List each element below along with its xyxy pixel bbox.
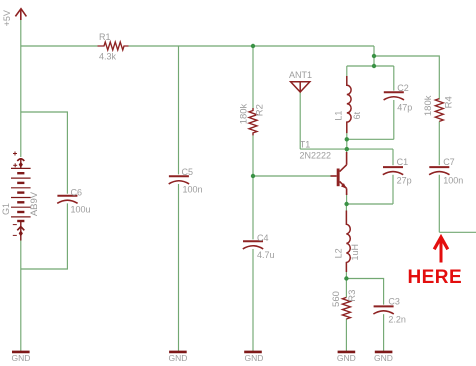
HERE annotation arrow — [434, 237, 448, 262]
ground symbol GND (battery) — [12, 351, 30, 354]
svg-text:R2: R2 — [255, 104, 266, 116]
wire C1 top lead — [392, 149, 394, 165]
wire C5 top lead — [178, 46, 180, 174]
wire tank top rail — [347, 65, 394, 67]
ground symbol GND (R3) — [338, 351, 356, 354]
capacitor C1 — [383, 167, 403, 175]
wire battery to C6 top — [21, 112, 68, 194]
svg-text:C6: C6 — [71, 188, 83, 198]
svg-text:6t: 6t — [352, 111, 362, 119]
svg-text:C3: C3 — [388, 296, 400, 306]
wire C6 bottom return — [21, 203, 68, 269]
wire C5 bottom lead to GND — [178, 184, 180, 351]
junction at base node — [251, 174, 255, 178]
wire node to C3 — [346, 279, 383, 305]
capacitor C4 — [243, 241, 263, 249]
wire branch to R4 — [374, 56, 439, 100]
svg-text:R3: R3 — [347, 290, 358, 302]
wire R4 to C7 — [438, 121, 440, 165]
wire battery minus to GND — [20, 240, 22, 351]
svg-text:C2: C2 — [397, 83, 409, 93]
antenna ANT1 — [291, 82, 310, 92]
svg-text:AB9V: AB9V — [29, 191, 40, 216]
svg-text:47p: 47p — [397, 103, 412, 113]
wire main +5V rail right of R1 — [129, 45, 375, 47]
svg-text:GND: GND — [245, 353, 264, 363]
junction at R4 branch — [372, 54, 376, 58]
ground symbol GND (C5) — [169, 351, 187, 354]
junction at tank top — [372, 64, 376, 68]
resistor R4 — [435, 99, 443, 122]
capacitor C7 — [429, 167, 449, 175]
svg-text:R4: R4 — [444, 96, 455, 108]
svg-text:100n: 100n — [443, 176, 463, 186]
capacitor C2 — [384, 92, 404, 100]
wire tank to collector node — [346, 139, 348, 149]
svg-text:HERE: HERE — [408, 267, 463, 288]
battery G1 — [11, 152, 31, 241]
inductor L2 — [346, 211, 350, 273]
wire C2 bottom lead — [393, 100, 395, 139]
svg-text:ANT1: ANT1 — [289, 70, 312, 80]
svg-text:GND: GND — [374, 353, 393, 363]
resistor R3 — [342, 297, 350, 319]
svg-text:560: 560 — [331, 291, 342, 307]
svg-text:100u: 100u — [71, 204, 91, 214]
wire main +5V rail left of R1 — [21, 45, 98, 47]
wire C1 bottom lead — [392, 175, 394, 204]
junction at R2 top — [251, 44, 255, 48]
svg-text:R1: R1 — [99, 32, 111, 42]
wire collector rail — [300, 148, 393, 150]
svg-text:L1: L1 — [333, 111, 343, 121]
svg-text:C4: C4 — [257, 233, 269, 243]
wire L2 to node — [345, 262, 347, 278]
junction at emitter node — [344, 202, 348, 206]
wire R2 top lead — [252, 46, 254, 111]
svg-text:C5: C5 — [182, 167, 194, 177]
wire C4 top lead — [252, 176, 254, 239]
svg-text:4.3k: 4.3k — [99, 52, 117, 62]
svg-text:27p: 27p — [397, 176, 412, 186]
wire collector green segment — [346, 149, 348, 154]
wire C3 bottom to GND — [383, 314, 385, 351]
junction at tank bottom — [345, 137, 349, 141]
wire R3 top lead — [345, 279, 347, 298]
transistor T1 — [331, 152, 347, 195]
svg-text:2N2222: 2N2222 — [300, 151, 332, 161]
wire HERE stub to edge — [439, 231, 476, 233]
svg-text:100n: 100n — [183, 184, 203, 194]
wire C2 top lead — [393, 66, 395, 91]
svg-text:1uH: 1uH — [350, 244, 360, 261]
capacitor C6 — [57, 196, 77, 204]
wire emitter to L2 — [345, 204, 347, 224]
wire C4 bottom lead to GND — [252, 249, 254, 351]
ground symbol GND (C3) — [375, 351, 393, 354]
svg-text:180k: 180k — [239, 103, 250, 124]
capacitor C3 — [373, 306, 393, 314]
svg-text:GND: GND — [11, 353, 30, 363]
wire antenna lead — [299, 92, 301, 149]
svg-text:GND: GND — [169, 353, 188, 363]
resistor R2 — [249, 108, 257, 135]
svg-text:L2: L2 — [334, 248, 344, 258]
ground symbol GND (C4) — [244, 351, 262, 354]
junction at collector node — [345, 147, 349, 151]
wire drop at x=374 — [373, 46, 375, 66]
wire base rail — [253, 175, 331, 177]
wire emitter rail — [347, 203, 393, 205]
svg-text:2.2n: 2.2n — [388, 314, 406, 324]
resistor R1 — [98, 42, 129, 50]
wire R3 bottom to GND — [345, 319, 347, 351]
svg-text:4.7u: 4.7u — [257, 250, 275, 260]
wire L1 top lead — [346, 66, 348, 85]
svg-text:+5V: +5V — [2, 10, 12, 26]
wire +5V column to battery plus — [20, 16, 22, 157]
capacitor C5 — [169, 176, 189, 184]
junction at L2 bottom node — [344, 276, 348, 280]
+5V supply arrow — [15, 9, 26, 20]
svg-text:C7: C7 — [443, 157, 455, 167]
wire emitter green segment — [346, 193, 348, 204]
wire R2 bottom lead — [252, 133, 254, 176]
wire C7 bottom — [438, 175, 440, 233]
svg-text:180k: 180k — [423, 95, 434, 116]
wire tank bottom rail — [347, 138, 394, 140]
inductor L1 — [347, 76, 351, 133]
svg-text:C1: C1 — [397, 157, 409, 167]
svg-text:GND: GND — [337, 353, 356, 363]
svg-text:T1: T1 — [300, 140, 311, 150]
wire L1 bottom lead — [346, 122, 348, 139]
svg-text:G1: G1 — [1, 203, 11, 215]
